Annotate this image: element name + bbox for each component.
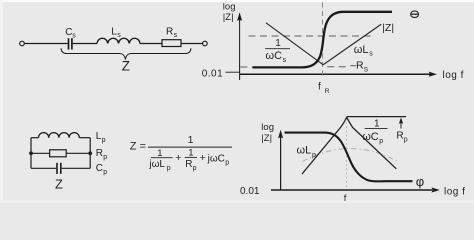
svg-text:log: log [261, 122, 274, 133]
svg-text:p: p [404, 137, 408, 144]
wLp ascending line [302, 117, 347, 174]
svg-text:ωL: ωL [354, 44, 369, 56]
wire [25, 43, 68, 45]
svg-text:f: f [344, 193, 347, 203]
svg-text:log: log [223, 1, 236, 12]
theta symbol [411, 11, 419, 18]
wLs ascending line [323, 24, 381, 65]
wire bottom right [62, 167, 90, 169]
wire top left [31, 137, 39, 139]
svg-text:p: p [103, 169, 107, 176]
1/wCp descending line [347, 117, 397, 169]
svg-text:p: p [379, 138, 383, 145]
svg-text:s: s [369, 51, 373, 58]
capacitor Cp [57, 163, 61, 174]
wire [181, 43, 203, 45]
svg-text:f: f [318, 82, 321, 93]
inductor Ls [97, 38, 140, 43]
svg-text:s: s [283, 57, 287, 64]
svg-text:Z =: Z = [130, 140, 146, 152]
svg-text:jωC: jωC [207, 153, 225, 164]
resistor Rp [50, 150, 67, 157]
y axis [280, 135, 282, 190]
svg-text:p: p [193, 165, 197, 172]
terminal right [203, 41, 208, 46]
node left junction [29, 151, 33, 155]
theta phase curve (thick sigmoid) [253, 12, 393, 68]
svg-text:|Z|: |Z| [382, 22, 394, 34]
svg-text:ωL: ωL [297, 145, 312, 157]
sub fraction bar [151, 157, 173, 159]
svg-text:S: S [364, 66, 369, 73]
capacitor Cs [69, 38, 72, 49]
brace under Z [61, 48, 191, 59]
dashed resonance vertical at fR [322, 3, 324, 77]
svg-text:R: R [325, 88, 330, 95]
x axis [271, 189, 432, 191]
Rp arrow [400, 121, 402, 129]
svg-text:jωL: jωL [148, 159, 165, 170]
1/wCs descending line [266, 23, 323, 65]
svg-text:s: s [72, 33, 76, 40]
wire [140, 43, 162, 45]
svg-text:1: 1 [374, 118, 380, 129]
wire left vertical [30, 138, 32, 169]
svg-text:R: R [96, 148, 103, 159]
svg-text:1: 1 [275, 38, 281, 49]
svg-text:C: C [96, 163, 103, 174]
svg-text:Z: Z [55, 176, 63, 191]
svg-text:R: R [396, 131, 403, 142]
svg-text:Z: Z [122, 59, 130, 74]
vertical dotted resonance line [346, 118, 348, 189]
svg-text:p: p [102, 137, 106, 144]
node right junction [88, 151, 92, 155]
wire [73, 43, 97, 45]
svg-text:log f: log f [444, 187, 465, 198]
inductor Lp [39, 133, 80, 138]
svg-text:+: + [175, 152, 181, 164]
fraction main bar [148, 146, 232, 148]
phi phase curve (thick) [285, 133, 413, 182]
svg-text:s: s [117, 32, 121, 39]
svg-text:p: p [312, 152, 316, 159]
sub fraction bar [185, 156, 197, 158]
svg-text:|Z|: |Z| [261, 133, 272, 144]
y axis [239, 19, 241, 80]
resistor Rs [162, 40, 181, 47]
svg-text:0.01: 0.01 [202, 68, 223, 79]
terminal left [20, 41, 25, 46]
svg-text:0.01: 0.01 [240, 186, 260, 197]
svg-text:ωC: ωC [362, 131, 379, 143]
wire mid left [31, 152, 50, 154]
wire mid right [66, 152, 90, 154]
svg-text:p: p [225, 159, 229, 166]
svg-text:p: p [103, 154, 107, 161]
0.01 tick [226, 71, 240, 73]
dashed level line top [249, 35, 373, 37]
x axis [240, 73, 431, 75]
svg-text:–R: –R [350, 60, 364, 72]
svg-text:p: p [167, 165, 171, 172]
dash-dot |Z| curve [303, 149, 398, 162]
svg-text:R: R [185, 159, 192, 170]
dashed -Rs level left segment [240, 66, 252, 68]
svg-text:φ: φ [416, 174, 424, 189]
svg-text:R: R [166, 27, 173, 38]
svg-text:s: s [174, 32, 178, 39]
svg-text:1: 1 [188, 134, 194, 146]
dashed -Rs level right segment [327, 66, 348, 68]
svg-text:+: + [200, 152, 206, 164]
wire right vertical [89, 138, 91, 169]
wire bottom left [31, 167, 56, 169]
wire top right [79, 137, 90, 139]
svg-text:|Z|: |Z| [223, 12, 234, 23]
Rp level line [347, 116, 406, 118]
svg-text:log f: log f [443, 70, 464, 81]
svg-text:ωC: ωC [266, 50, 283, 62]
